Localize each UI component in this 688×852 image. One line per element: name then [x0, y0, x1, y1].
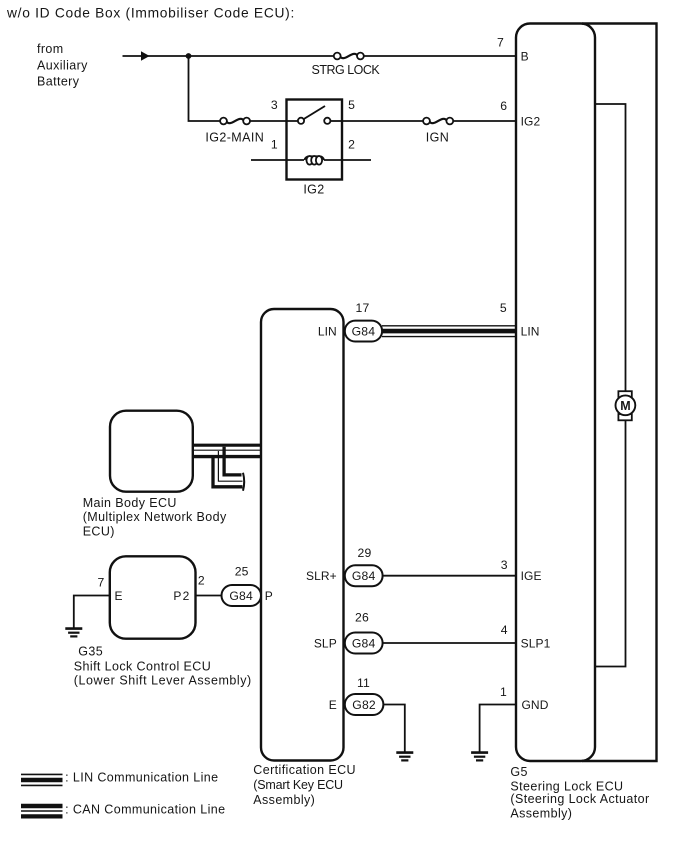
fuse STRG LOCK	[334, 53, 364, 60]
svg-text:IG2: IG2	[521, 114, 541, 128]
svg-text:: LIN Communication Line: : LIN Communication Line	[65, 770, 218, 784]
svg-text:(Smart Key ECU: (Smart Key ECU	[253, 778, 343, 792]
svg-text:IGE: IGE	[521, 569, 542, 583]
actuator housing outline	[582, 24, 657, 762]
svg-text:E: E	[115, 589, 123, 603]
wire: P2 to connector G84 pin 25	[196, 595, 224, 597]
CAN communication line to Certification ECU	[193, 445, 261, 456]
svg-text:Shift Lock Control ECU: Shift Lock Control ECU	[74, 659, 211, 673]
Shift Lock Control ECU block (G35)	[110, 556, 196, 638]
svg-text:from: from	[37, 42, 64, 56]
svg-text:IGN: IGN	[426, 131, 449, 145]
svg-text:Steering Lock ECU: Steering Lock ECU	[510, 779, 623, 793]
Certification ECU block	[261, 309, 344, 761]
ground (steering lock ECU GND)	[471, 753, 488, 761]
svg-text:2: 2	[198, 573, 205, 587]
svg-text:2: 2	[348, 138, 355, 152]
svg-text:E: E	[329, 698, 337, 712]
motor M	[616, 391, 636, 420]
wire: E to ground	[383, 705, 404, 753]
legend: CAN communication line	[21, 806, 63, 816]
connector G84 pin 25	[222, 585, 262, 606]
wire: GND to ground	[480, 705, 516, 753]
svg-text:5: 5	[348, 98, 355, 112]
svg-text:LIN: LIN	[318, 325, 337, 339]
connector G84 pin 17	[345, 321, 382, 342]
wire: motor loop bottom	[595, 420, 626, 667]
svg-text:M: M	[620, 399, 630, 413]
svg-text:7: 7	[98, 576, 105, 590]
Main Body ECU block	[110, 411, 193, 492]
svg-text:P2: P2	[173, 589, 190, 603]
svg-text:G84: G84	[352, 636, 376, 650]
wire: motor loop top	[595, 104, 626, 391]
svg-text:3: 3	[271, 98, 278, 112]
svg-text:5: 5	[500, 301, 507, 315]
svg-text:11: 11	[357, 676, 370, 690]
wire: fuse to relay pin 3	[250, 120, 301, 122]
svg-text:: CAN Communication Line: : CAN Communication Line	[65, 803, 225, 817]
svg-text:(Steering Lock Actuator: (Steering Lock Actuator	[510, 792, 649, 806]
svg-text:G35: G35	[78, 644, 103, 658]
svg-text:w/o ID Code Box (Immobiliser C: w/o ID Code Box (Immobiliser Code ECU):	[6, 5, 295, 20]
fuse IGN	[423, 118, 453, 125]
wire: fuse to pin B	[364, 55, 516, 57]
svg-text:1: 1	[500, 685, 507, 699]
wire: E to ground	[74, 596, 110, 629]
svg-text:G5: G5	[510, 765, 527, 779]
svg-text:1: 1	[271, 138, 278, 152]
svg-text:GND: GND	[522, 698, 549, 712]
svg-text:7: 7	[497, 35, 504, 49]
svg-text:IG2: IG2	[303, 183, 324, 197]
svg-text:G84: G84	[352, 324, 376, 338]
svg-text:4: 4	[501, 623, 508, 637]
svg-text:IG2-MAIN: IG2-MAIN	[205, 131, 264, 145]
fuse IG2-MAIN	[220, 118, 250, 125]
svg-text:(Multiplex Network Body: (Multiplex Network Body	[83, 510, 227, 524]
wire: SLP to SLP1	[383, 642, 516, 644]
svg-text:ECU): ECU)	[83, 524, 115, 538]
Steering Lock ECU block (G5)	[516, 24, 595, 762]
svg-text:29: 29	[358, 546, 372, 560]
svg-text:17: 17	[356, 301, 370, 315]
legend: LIN communication line	[21, 774, 63, 785]
svg-text:SLP: SLP	[314, 636, 337, 650]
wire: IGN fuse to pin IG2	[453, 120, 516, 122]
svg-text:SLP1: SLP1	[521, 636, 551, 650]
CAN branch stub	[213, 447, 244, 491]
svg-text:Certification ECU: Certification ECU	[253, 763, 356, 777]
svg-text:Assembly): Assembly)	[253, 793, 315, 807]
svg-text:LIN: LIN	[521, 325, 540, 339]
svg-text:Assembly): Assembly)	[510, 807, 572, 821]
wire: battery feed (node B row)	[123, 55, 335, 57]
LIN communication line to steering lock ECU	[382, 326, 516, 337]
connector G82 pin 11	[345, 694, 384, 715]
svg-text:25: 25	[235, 564, 249, 578]
node: junction dot	[186, 53, 192, 59]
svg-text:(Lower Shift Lever Assembly): (Lower Shift Lever Assembly)	[74, 674, 252, 688]
svg-text:Auxiliary: Auxiliary	[37, 59, 88, 73]
wire: SLR+ to IGE	[383, 575, 516, 577]
svg-text:Battery: Battery	[37, 75, 80, 89]
svg-text:STRG LOCK: STRG LOCK	[312, 63, 381, 77]
svg-text:SLR+: SLR+	[306, 569, 337, 583]
connector G84 pin 29	[345, 565, 383, 586]
relay coil winding	[251, 156, 371, 165]
svg-text:Main Body ECU: Main Body ECU	[83, 496, 177, 510]
relay switch contacts	[298, 106, 342, 124]
svg-text:26: 26	[355, 611, 369, 625]
svg-text:3: 3	[501, 558, 508, 572]
relay IG2 box	[287, 100, 343, 180]
svg-text:G84: G84	[229, 589, 253, 603]
arrow: current direction	[141, 51, 150, 60]
svg-text:P: P	[265, 589, 273, 603]
svg-text:B: B	[521, 49, 529, 63]
ground (certification ECU E)	[396, 753, 413, 761]
wire: relay pin 5 to IGN fuse	[342, 120, 423, 122]
ground G35	[65, 629, 82, 637]
svg-text:6: 6	[500, 99, 507, 113]
svg-text:G82: G82	[352, 698, 376, 712]
connector G84 pin 26	[345, 633, 383, 654]
wire: junction down to IG2 row	[189, 56, 221, 121]
svg-text:G84: G84	[352, 569, 376, 583]
